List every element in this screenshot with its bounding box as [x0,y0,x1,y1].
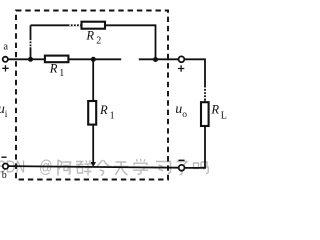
wire: mid row right segment into node B [139,58,179,60]
wire artifact dots on RL top lead [204,88,206,101]
watermark chinese glyph 吗 [194,162,209,174]
wire: bottom rail [8,166,178,168]
wire artifact dots on R2 left lead [70,24,82,26]
svg-text:b: b [2,170,7,181]
watermark chinese glyph 学 [133,159,148,175]
wire: node C down to vertical R1 [92,59,94,101]
svg-text:1: 1 [59,68,64,79]
svg-text:1: 1 [110,111,115,122]
terminal - (output bottom, open circle) [179,165,185,171]
resistor R2 body [82,22,106,29]
wire: node A up to R2 row [30,25,32,59]
watermark chinese glyph 群 [76,160,92,176]
resistor R1 (vertical) body [88,101,96,125]
arrowhead at bottom of R1 branch [90,162,96,167]
minus sign at output [178,159,184,161]
wire: RL down to bottom rail corner [185,126,205,168]
minus sign at input [2,156,7,158]
node A junction dot [28,57,33,62]
wire: R1 right lead to node C [68,58,121,60]
svg-text:R: R [85,29,94,43]
svg-text:2: 2 [96,35,101,46]
svg-text:R: R [99,103,108,117]
watermark chinese glyph 天 [114,162,128,175]
svg-text:u: u [175,102,182,117]
wire: R2 row left lead [31,24,82,26]
plus sign at input [2,65,8,71]
watermark chinese glyph 了 [177,162,188,175]
plus sign at output [178,65,184,71]
watermark chinese glyph 阿 [58,160,72,176]
resistor R1 (horizontal) body [45,56,69,63]
wire: R2 right lead to corner, down to node B [105,25,156,59]
wire artifact dots on node A riser [30,40,32,47]
svg-text:a: a [3,42,8,53]
terminal + (output top, open circle) [179,56,185,62]
wire: vertical R1 down to bottom rail [92,125,94,163]
resistor RL body [201,102,209,126]
svg-text:L: L [221,111,227,122]
watermark chinese glyph 习 [156,162,171,174]
svg-text:R: R [210,103,219,117]
terminal b (open circle) [3,164,8,169]
svg-text:o: o [182,110,187,120]
svg-text:i: i [5,110,8,120]
svg-text:R: R [49,62,58,76]
node B junction dot [153,57,158,62]
terminal a (open circle) [3,57,8,62]
wire: node A to R1 [31,58,45,60]
wire: terminal a to node A [8,58,31,60]
watermark chinese glyph 今 [97,160,111,176]
dashed two-port network boundary box [16,11,168,180]
node C junction dot [91,57,96,62]
wire: output top to RL [184,59,205,102]
watermark CSDN [0,158,53,177]
